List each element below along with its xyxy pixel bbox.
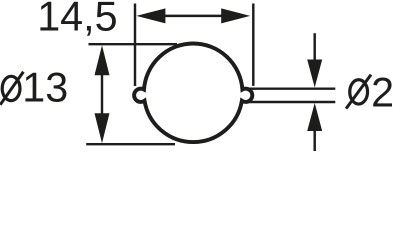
svg-text:14,5: 14,5: [37, 0, 117, 40]
svg-text:2: 2: [371, 70, 394, 116]
svg-text:13: 13: [22, 65, 68, 111]
